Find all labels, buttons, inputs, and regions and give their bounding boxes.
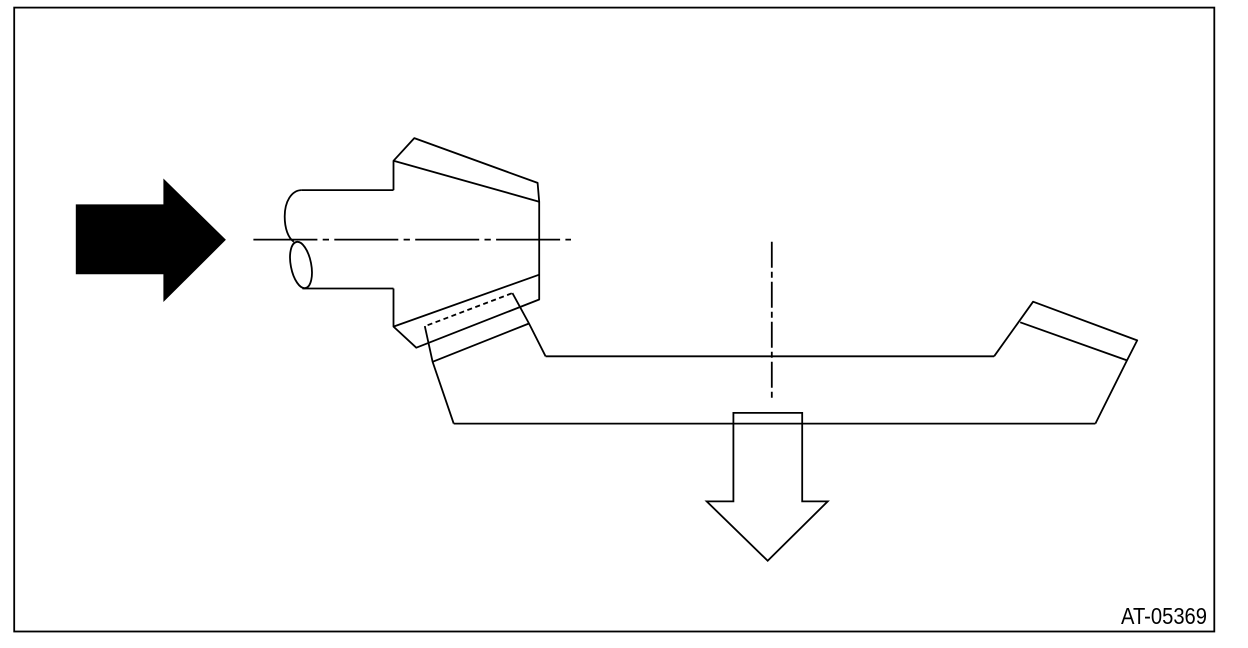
svg-text:AT-05369: AT-05369 <box>1121 603 1207 629</box>
